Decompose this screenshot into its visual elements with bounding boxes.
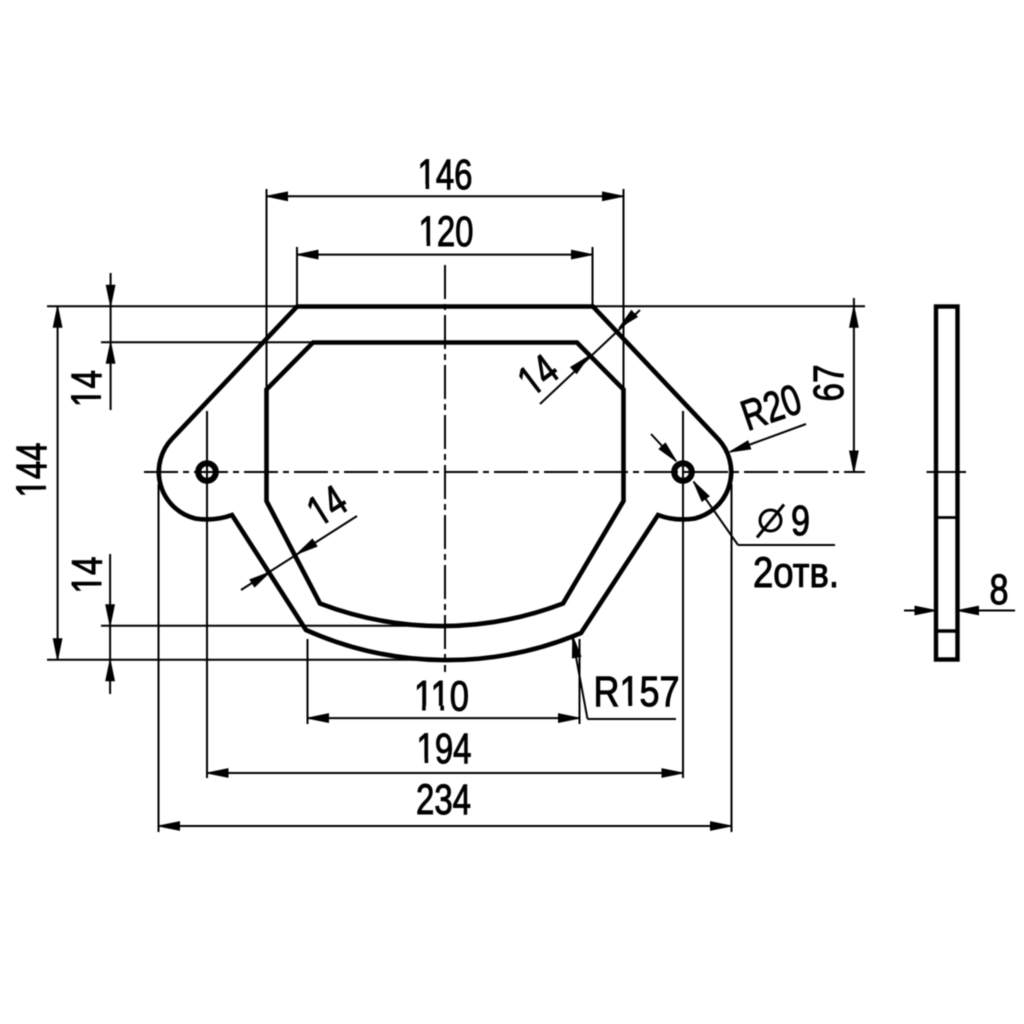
dimension 14 chamfer top-right <box>509 345 568 406</box>
dimension 14 wall lower-left <box>299 476 356 537</box>
extension 110 right <box>579 639 581 724</box>
svg-text:144: 144 <box>8 443 56 498</box>
plate inner contour <box>267 343 624 627</box>
extension 120 left <box>296 247 298 307</box>
hole left dia9 <box>198 463 216 481</box>
extension 146 right <box>623 189 625 392</box>
svg-text:146: 146 <box>418 151 473 199</box>
dimension 146 <box>267 195 624 197</box>
side view inner arc edge line <box>936 629 958 632</box>
radius R157 leader <box>573 638 588 719</box>
extension outer arc bottom <box>47 659 450 661</box>
left hole centerline / 194 extension <box>206 411 208 778</box>
extension 120 right <box>592 247 594 307</box>
extension inner arc bottom <box>101 625 450 627</box>
dimension 110 <box>308 717 580 719</box>
extension 234 left <box>158 484 160 832</box>
svg-text:234: 234 <box>416 776 471 824</box>
dimension 234 <box>159 825 732 827</box>
svg-text:9: 9 <box>791 497 810 545</box>
plate outer contour <box>159 307 731 661</box>
svg-text:8: 8 <box>990 566 1009 614</box>
dimension 194 <box>207 772 683 774</box>
svg-text:194: 194 <box>417 725 472 773</box>
svg-text:67: 67 <box>805 365 853 402</box>
svg-text:14: 14 <box>63 370 111 407</box>
svg-text:2отв.: 2отв. <box>753 549 839 597</box>
dimension 14 bottom-left <box>109 554 111 694</box>
dimension 67 <box>853 298 855 472</box>
dimension 120 <box>297 254 593 256</box>
dimension 14 top-left <box>110 273 112 410</box>
extension 234 right <box>731 484 733 832</box>
side view centerline <box>927 471 967 473</box>
hole callout dia9 2 holes <box>651 434 676 461</box>
dimension 144 <box>57 306 59 660</box>
svg-text:14: 14 <box>64 557 112 594</box>
extension inner top edge <box>101 341 313 343</box>
extension 146 left <box>266 189 268 392</box>
side view plate section <box>936 307 958 660</box>
extension 110 left <box>307 639 309 724</box>
side view tab edge line <box>936 516 958 519</box>
hole right dia9 <box>674 463 692 481</box>
extension top edge right <box>593 305 865 307</box>
svg-text:R157: R157 <box>594 668 680 716</box>
diameter symbol <box>760 510 781 531</box>
horizontal centerline <box>144 471 865 473</box>
vertical centerline <box>444 265 446 672</box>
svg-text:120: 120 <box>419 208 474 256</box>
dimension 8 <box>904 610 936 612</box>
extension top edge left <box>47 305 297 307</box>
right hole centerline / 194 extension <box>682 411 684 778</box>
radius R20 leader <box>731 424 806 452</box>
svg-text:110: 110 <box>414 673 469 721</box>
